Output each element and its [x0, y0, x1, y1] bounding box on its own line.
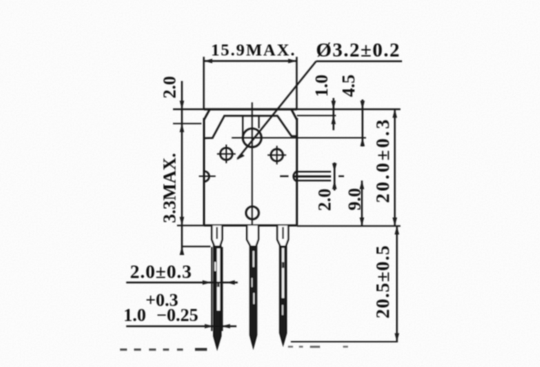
leader diagonal to hole [238, 61, 317, 159]
bottom edge extension left [177, 225, 204, 227]
svg-text:2.0: 2.0 [315, 189, 335, 212]
small bottom circle [246, 207, 259, 220]
svg-text:3.3MAX.: 3.3MAX. [160, 153, 180, 223]
left extension y123.6 [173, 123, 202, 125]
svg-text:20.0±0.3: 20.0±0.3 [373, 117, 394, 203]
extension line right of 15.9 [296, 57, 298, 109]
vertical centerline [251, 102, 253, 231]
shoulder bottom extension [182, 246, 211, 248]
bottom cut-off debris [120, 346, 348, 351]
hole edge projection left [242, 116, 244, 138]
body outline [204, 109, 297, 225]
dimension 15.9MAX line [204, 60, 297, 62]
lead edge extension lines [211, 247, 213, 331]
svg-text:Ø3.2±0.2: Ø3.2±0.2 [316, 40, 401, 62]
left pin mark circle [220, 148, 232, 160]
svg-text:4.5: 4.5 [339, 75, 359, 98]
hole horizontal centerline [232, 137, 366, 139]
right edge notch slot [293, 171, 297, 181]
svg-text:−0.25: −0.25 [157, 305, 199, 325]
body inner step [204, 116, 297, 138]
lead 2 shoulder [247, 226, 259, 247]
notch centerline ticks [280, 175, 289, 177]
lead 1 body [214, 247, 221, 348]
body bottom edge [204, 224, 297, 226]
right pin mark circle [271, 149, 283, 161]
notch slot lines [297, 171, 331, 173]
hole edge projection right [258, 115, 260, 128]
body top edge long line [173, 108, 400, 110]
svg-text:1.0: 1.0 [124, 305, 147, 325]
svg-text:1.0: 1.0 [312, 75, 332, 98]
svg-text:15.9MAX.: 15.9MAX. [211, 41, 296, 60]
svg-text:20.5±0.5: 20.5±0.5 [373, 245, 394, 319]
lead 1 shoulder [212, 226, 222, 247]
notch slot center line [294, 175, 332, 177]
left dim vertical line [181, 81, 183, 253]
leader underline [316, 60, 402, 62]
lead 2 body [250, 247, 256, 347]
lead narrow width dim line [126, 325, 236, 327]
lead width dim line [126, 282, 238, 284]
right step extension [297, 115, 336, 117]
svg-text:2.0±0.3: 2.0±0.3 [130, 262, 192, 283]
svg-text:2.0: 2.0 [160, 76, 180, 99]
bottom edge extension right [297, 225, 401, 227]
lead tip extension line bottom [291, 341, 398, 343]
lead 3 shoulder [277, 226, 288, 247]
mounting hole [243, 129, 262, 148]
body top edge thick segment [204, 108, 297, 110]
left edge notch [204, 171, 209, 181]
extension line left of 15.9 [203, 57, 205, 109]
lead 3 body [280, 247, 286, 344]
